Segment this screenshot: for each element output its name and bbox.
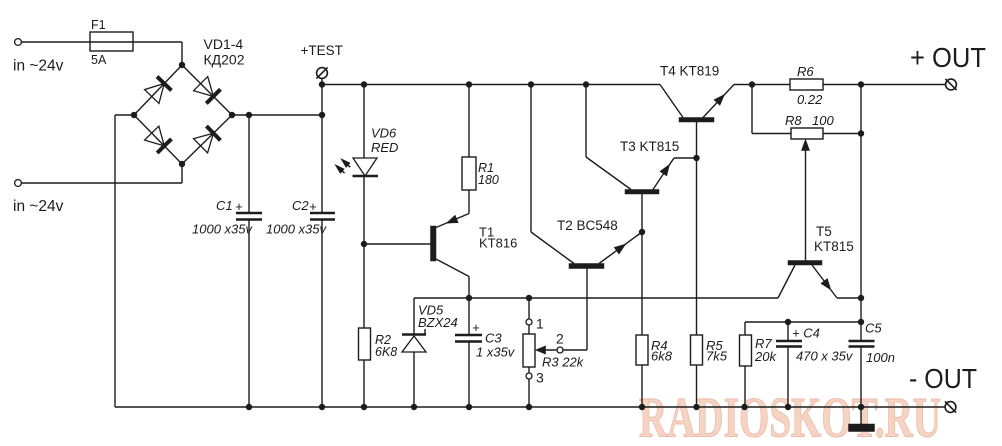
svg-text:RED: RED [371, 140, 398, 155]
svg-text:KT815: KT815 [814, 239, 854, 254]
svg-text:100n: 100n [866, 350, 895, 365]
svg-text:- OUT: - OUT [909, 363, 977, 394]
svg-text:5A: 5A [91, 53, 107, 67]
svg-text:R8: R8 [785, 113, 802, 128]
svg-text:1000 x35v: 1000 x35v [266, 222, 327, 237]
svg-text:C5: C5 [865, 321, 882, 336]
svg-text:3: 3 [536, 370, 544, 386]
svg-text:R3 22k: R3 22k [542, 355, 585, 370]
svg-text:C2: C2 [292, 198, 309, 213]
svg-text:+: + [235, 199, 243, 214]
svg-text:in ~24v: in ~24v [13, 198, 64, 215]
svg-text:KT816: KT816 [479, 236, 517, 251]
svg-text:+: + [472, 320, 480, 335]
svg-text:T3 KT815: T3 KT815 [620, 139, 679, 154]
svg-text:6k8: 6k8 [651, 349, 673, 364]
svg-text:1: 1 [536, 316, 544, 332]
svg-text:C3: C3 [485, 331, 502, 346]
svg-text:7k5: 7k5 [706, 349, 728, 364]
svg-text:0.22: 0.22 [797, 92, 823, 107]
svg-text:+ C4: + C4 [792, 326, 820, 341]
svg-text:T2 BC548: T2 BC548 [557, 218, 618, 233]
svg-text:6K8: 6K8 [375, 345, 397, 359]
svg-text:КД202: КД202 [204, 52, 245, 68]
svg-text:T5: T5 [816, 224, 832, 239]
svg-text:VD6: VD6 [371, 126, 397, 141]
svg-text:+TEST: +TEST [301, 43, 343, 58]
svg-text:1 x35v: 1 x35v [476, 345, 516, 360]
svg-text:100: 100 [812, 113, 834, 128]
svg-text:C1: C1 [216, 198, 233, 213]
svg-text:VD1-4: VD1-4 [204, 36, 244, 52]
svg-text:2: 2 [556, 331, 564, 347]
svg-text:BZX24: BZX24 [418, 315, 458, 330]
svg-text:180: 180 [478, 173, 499, 187]
svg-text:T4 KT819: T4 KT819 [660, 64, 719, 79]
svg-text:F1: F1 [91, 18, 106, 32]
svg-text:20k: 20k [754, 349, 777, 364]
svg-text:+ OUT: + OUT [910, 42, 986, 73]
svg-text:RADIOSKOT.RU: RADIOSKOT.RU [639, 387, 941, 446]
svg-text:+: + [309, 199, 317, 214]
svg-text:470 x 35v: 470 x 35v [796, 349, 854, 364]
svg-text:R6: R6 [797, 64, 814, 79]
svg-text:in ~24v: in ~24v [13, 58, 64, 75]
svg-text:1000 x35v: 1000 x35v [192, 222, 253, 237]
